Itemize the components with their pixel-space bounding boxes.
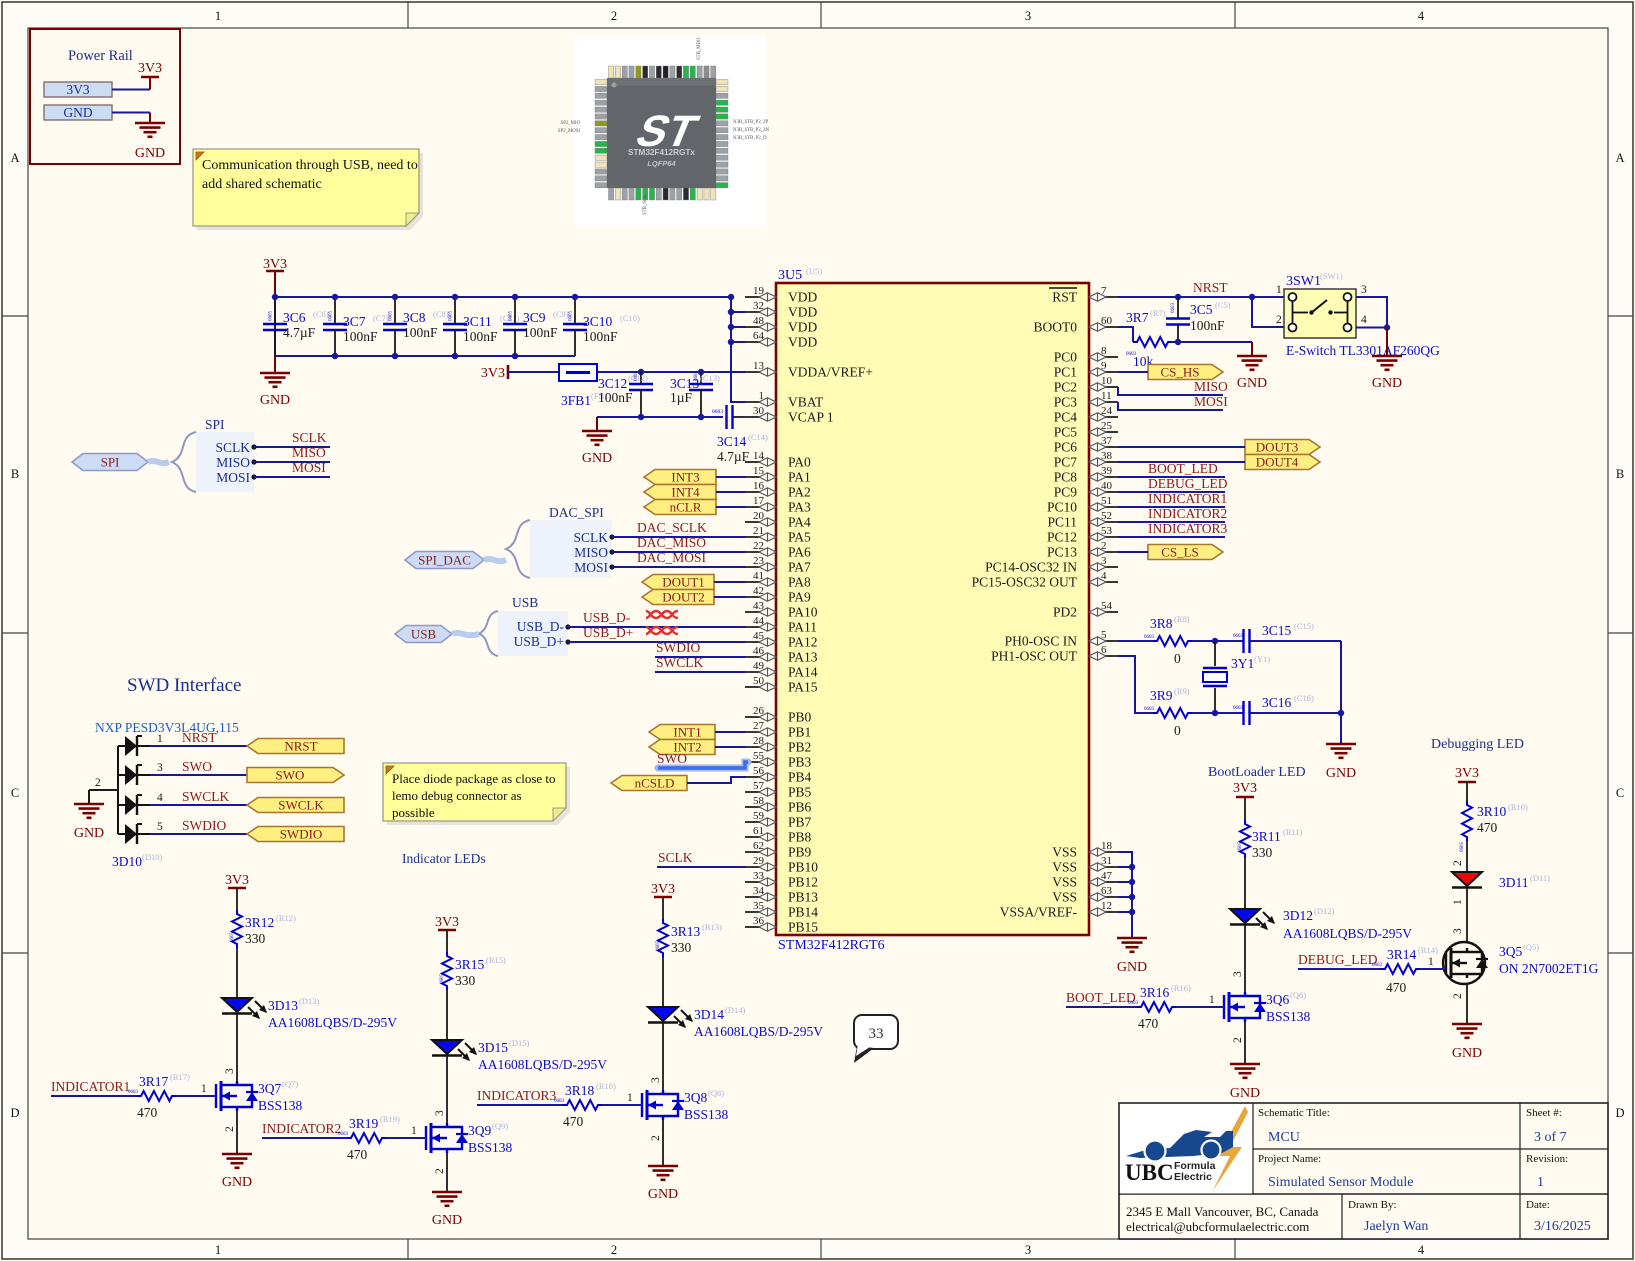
MCU pin 35 PB14 [745, 900, 818, 920]
svg-text:GND: GND [1230, 1086, 1260, 1101]
svg-text:28: 28 [753, 735, 765, 747]
svg-text:INDICATOR2: INDICATOR2 [262, 1121, 341, 1136]
svg-text:PA12: PA12 [788, 635, 818, 650]
svg-text:PC11: PC11 [1047, 515, 1077, 530]
svg-text:Power Rail: Power Rail [68, 48, 133, 64]
svg-text:MOSI: MOSI [292, 460, 326, 475]
ground symbol (D10) [74, 804, 104, 841]
ground symbol (Q6) [1230, 1064, 1260, 1101]
svg-text:Simulated Sensor Module: Simulated Sensor Module [1268, 1175, 1413, 1190]
svg-text:B: B [1616, 467, 1624, 481]
svg-text:GND: GND [1452, 1046, 1482, 1061]
wire USB_D+ to PA12 [565, 639, 745, 644]
wire INT1 to PB1 [715, 731, 745, 733]
svg-text:3R14: 3R14 [1387, 947, 1417, 962]
ground symbol (power rail) [135, 123, 165, 161]
svg-text:34: 34 [753, 885, 765, 897]
svg-text:3R13: 3R13 [671, 924, 701, 939]
MCU pin 20 PA4 [745, 510, 811, 530]
MCU pin 16 PA2 [745, 480, 811, 500]
MCU pin 25 PC5 [1054, 420, 1118, 440]
capacitor C16 [1233, 693, 1314, 725]
svg-text:DOUT2: DOUT2 [662, 590, 705, 605]
svg-text:PB15: PB15 [788, 920, 818, 935]
svg-text:PB7: PB7 [788, 815, 812, 830]
svg-text:0605: 0605 [1460, 842, 1465, 853]
capacitor C5 [1166, 297, 1231, 342]
wire D10 pin 4 SWCLK [150, 789, 247, 805]
svg-text:VDDA/VREF+: VDDA/VREF+ [788, 365, 873, 380]
svg-text:CS_HS: CS_HS [1160, 365, 1199, 380]
svg-text:56: 56 [753, 765, 765, 777]
svg-text:Jaelyn Wan: Jaelyn Wan [1364, 1219, 1428, 1234]
svg-text:44: 44 [753, 615, 765, 627]
svg-text:(C9): (C9) [553, 309, 569, 319]
svg-text:STM32F412RGTx: STM32F412RGTx [628, 148, 695, 157]
svg-text:(C5): (C5) [1215, 300, 1231, 310]
port INT2 [649, 740, 715, 755]
wire INT2 to PB2 [715, 746, 745, 748]
svg-text:4: 4 [1418, 9, 1425, 23]
svg-text:3V3: 3V3 [138, 61, 162, 76]
svg-text:35: 35 [753, 900, 765, 912]
port SWCLK [247, 798, 344, 813]
svg-text:4: 4 [157, 792, 163, 804]
wire INDICATOR3 to R18 [477, 1104, 563, 1106]
svg-text:(Q9): (Q9) [492, 1121, 508, 1131]
svg-text:PB9: PB9 [788, 845, 812, 860]
wire D12 to Q6 drain [1244, 925, 1246, 992]
svg-text:BootLoader LED: BootLoader LED [1208, 765, 1306, 780]
MCU pin 12 VSSA/VREF- [1000, 900, 1118, 920]
ground symbol (NRST RC) [1237, 342, 1267, 391]
junction NRST C5 [1175, 294, 1181, 300]
svg-text:(Y1): (Y1) [1254, 654, 1270, 664]
svg-text:(C7): (C7) [373, 313, 389, 323]
MCU pin 54 PD2 [1053, 600, 1118, 620]
wire C15 to gnd rail [1250, 640, 1341, 642]
wire DAC_MOSI [609, 564, 745, 569]
wire DEBUG_LED (PC9) [1118, 491, 1225, 493]
ground symbol (Q7) [222, 1154, 252, 1190]
svg-text:(SW1): (SW1) [1320, 271, 1343, 281]
svg-text:0603: 0603 [1126, 352, 1137, 357]
MCU pin 64 VDD [745, 330, 817, 350]
svg-text:GND: GND [582, 451, 612, 466]
svg-text:PA0: PA0 [788, 455, 811, 470]
svg-text:MISO: MISO [216, 455, 250, 470]
svg-text:GND: GND [74, 826, 104, 841]
port DOUT2 [642, 590, 714, 605]
wire GND entry to ground [112, 113, 150, 124]
svg-text:3Q8: 3Q8 [684, 1090, 707, 1105]
junction [452, 294, 458, 300]
wire filter ground bus [597, 416, 723, 418]
svg-text:MISO: MISO [1194, 379, 1228, 394]
MCU pin 4 PC15-OSC32 OUT [972, 570, 1118, 590]
svg-text:PA5: PA5 [788, 530, 811, 545]
MCU pin 34 PB13 [745, 885, 818, 905]
svg-text:100nF: 100nF [1190, 318, 1225, 333]
svg-text:12: 12 [1101, 900, 1112, 912]
svg-text:21: 21 [753, 525, 764, 537]
svg-text:62: 62 [753, 840, 764, 852]
svg-text:DAC_MISO: DAC_MISO [637, 535, 706, 550]
svg-text:64: 64 [753, 330, 765, 342]
svg-text:(D10): (D10) [142, 852, 162, 862]
svg-text:AA1608LQBS/D-295V: AA1608LQBS/D-295V [1283, 926, 1412, 941]
svg-text:100nF: 100nF [343, 329, 378, 344]
svg-text:DOUT3: DOUT3 [1256, 440, 1299, 455]
svg-text:PC4: PC4 [1054, 410, 1078, 425]
wire nCSLD to PB4 [687, 777, 745, 783]
svg-text:PC5: PC5 [1054, 425, 1078, 440]
svg-text:3V3: 3V3 [66, 82, 89, 97]
svg-text:Drawn By:: Drawn By: [1348, 1199, 1397, 1211]
wire R9 to C16 [1192, 710, 1243, 716]
svg-text:330: 330 [455, 973, 476, 988]
svg-text:PA11: PA11 [788, 620, 817, 635]
wire D10 pin 1 NRST [150, 730, 247, 746]
svg-text:(R11): (R11) [1283, 827, 1303, 837]
svg-text:100nF: 100nF [463, 329, 498, 344]
svg-text:3D10: 3D10 [112, 854, 142, 869]
svg-text:63: 63 [1101, 885, 1113, 897]
svg-text:PC14-OSC32 IN: PC14-OSC32 IN [985, 560, 1077, 575]
svg-text:(R9): (R9) [1174, 686, 1190, 696]
power symbol 3V3 (bootloader) [1233, 781, 1257, 820]
svg-text:Place diode package as close t: Place diode package as close to [392, 771, 556, 786]
svg-text:0603: 0603 [1233, 634, 1244, 639]
svg-text:5: 5 [1101, 629, 1107, 641]
svg-text:3V3: 3V3 [1455, 766, 1479, 781]
svg-text:1µF: 1µF [670, 390, 693, 405]
svg-text:MCU: MCU [1268, 1130, 1300, 1145]
junction C6 top [272, 294, 278, 300]
svg-text:DEBUG_LED: DEBUG_LED [1148, 476, 1228, 491]
svg-text:3V3: 3V3 [1233, 781, 1257, 796]
svg-text:PC2: PC2 [1054, 380, 1077, 395]
svg-text:PB2: PB2 [788, 740, 811, 755]
wire SWO to PB3 (highlighted) [658, 762, 748, 768]
svg-text:1: 1 [201, 1083, 207, 1095]
ground symbol (decoupling) [260, 356, 290, 408]
svg-text:37: 37 [1101, 435, 1113, 447]
svg-text:PA4: PA4 [788, 515, 811, 530]
STM32F412RGTx chip picture [558, 36, 770, 226]
wire INDICATOR2 to R19 [262, 1137, 347, 1139]
svg-text:3: 3 [1025, 9, 1031, 23]
junction C12 bottom [638, 414, 644, 420]
MCU pin 28 PB2 [745, 735, 811, 755]
LED D12 blue [1230, 906, 1412, 941]
MCU pin 31 VSS [1052, 855, 1118, 875]
svg-text:0605: 0605 [329, 311, 334, 322]
wire CS_HS to PC1 [1118, 371, 1148, 373]
svg-text:1: 1 [759, 390, 765, 402]
svg-text:SWCLK: SWCLK [656, 655, 704, 670]
wire D15 to Q9 [446, 1056, 448, 1123]
svg-text:3R11: 3R11 [1252, 829, 1281, 844]
MCU pin 23 PA7 [745, 555, 811, 575]
svg-text:USB_D+: USB_D+ [514, 634, 564, 649]
svg-text:PA10: PA10 [788, 605, 818, 620]
svg-text:INDICATOR2: INDICATOR2 [1148, 506, 1227, 521]
resistor R9 [1144, 686, 1192, 738]
svg-text:C: C [1616, 786, 1624, 800]
wire INDICATOR1 (PC10) [1118, 506, 1225, 508]
resistor R8 [1144, 614, 1192, 666]
svg-text:42: 42 [753, 585, 764, 597]
MCU pin 51 PC10 [1047, 495, 1118, 515]
transistor Q8 BSS138 [642, 1088, 729, 1122]
junction NRST SW1 [1249, 294, 1255, 300]
MCU pin 59 PB7 [745, 810, 812, 830]
svg-text:PB14: PB14 [788, 905, 818, 920]
svg-text:0603: 0603 [128, 1090, 139, 1095]
svg-text:49: 49 [753, 660, 765, 672]
svg-text:D: D [1615, 1106, 1624, 1120]
svg-text:BSS138: BSS138 [1266, 1009, 1311, 1024]
svg-text:D: D [10, 1106, 19, 1120]
svg-text:(C16): (C16) [1294, 693, 1314, 703]
wire CS_LS to PC13 [1118, 551, 1148, 553]
svg-text:PC1: PC1 [1054, 365, 1077, 380]
junction [392, 294, 398, 300]
svg-text:(C14): (C14) [748, 432, 768, 442]
svg-text:DOUT1: DOUT1 [662, 575, 705, 590]
svg-text:0605: 0605 [656, 941, 661, 952]
svg-text:lemo debug connector as: lemo debug connector as [392, 788, 522, 803]
svg-text:PA14: PA14 [788, 665, 818, 680]
svg-text:SPI: SPI [205, 417, 225, 432]
power symbol 3V3 (ind2) [435, 915, 459, 952]
svg-text:3/16/2025: 3/16/2025 [1534, 1219, 1591, 1234]
svg-text:1: 1 [1276, 284, 1282, 296]
svg-text:13: 13 [753, 360, 765, 372]
MCU pin 53 PC12 [1047, 525, 1118, 545]
MCU pin 49 PA14 [745, 660, 818, 680]
svg-text:3: 3 [434, 1110, 446, 1116]
resistor R17 [128, 1072, 190, 1120]
svg-text:(C8): (C8) [433, 309, 449, 319]
wire Q7 source to gnd [236, 1111, 238, 1154]
svg-text:3C9: 3C9 [523, 310, 546, 325]
wire PH0 to R8 [1118, 640, 1153, 642]
svg-text:6: 6 [1101, 644, 1107, 656]
svg-text:0603: 0603 [1128, 1001, 1139, 1006]
port DOUT4 [1245, 455, 1320, 470]
svg-text:N3B_STB_P2_D: N3B_STB_P2_D [733, 136, 767, 141]
note: place diode package close [383, 763, 570, 825]
svg-text:(D14): (D14) [725, 1005, 745, 1015]
svg-text:INDICATOR3: INDICATOR3 [477, 1088, 557, 1103]
resistor R19 [338, 1114, 400, 1162]
svg-text:100nF: 100nF [583, 329, 618, 344]
svg-text:PC6: PC6 [1054, 440, 1078, 455]
svg-text:PB0: PB0 [788, 710, 812, 725]
wire R15 to D15 [446, 990, 448, 1040]
capacitor C10 [563, 297, 640, 356]
MCU pin 3 PC14-OSC32 IN [985, 555, 1118, 575]
svg-text:MOSI: MOSI [574, 560, 608, 575]
svg-text:3D15: 3D15 [478, 1040, 508, 1055]
port INT1 [649, 725, 715, 740]
wire NRST to SW1 pin2 [1252, 297, 1284, 327]
svg-text:A: A [1615, 151, 1624, 165]
crystal Y1 [1203, 641, 1270, 713]
svg-text:0603: 0603 [1171, 303, 1176, 314]
power symbol 3V3 (ind1) [225, 873, 249, 910]
wire D10 pin 3 SWO [150, 759, 247, 775]
svg-text:2: 2 [611, 1243, 617, 1257]
svg-text:INT1: INT1 [673, 725, 701, 740]
svg-text:(R15): (R15) [486, 955, 506, 965]
svg-text:DAC_SPI: DAC_SPI [549, 505, 604, 520]
svg-text:0603: 0603 [1372, 963, 1383, 968]
wire D13 to Q7 [236, 1014, 238, 1081]
svg-text:0605: 0605 [569, 311, 574, 322]
svg-text:MOSI: MOSI [1194, 394, 1228, 409]
svg-text:PB12: PB12 [788, 875, 818, 890]
wire VSS bus [1118, 852, 1135, 937]
harness SPI [172, 417, 254, 492]
svg-text:VBAT: VBAT [788, 395, 824, 410]
callout 33 [854, 1015, 898, 1063]
svg-text:14: 14 [753, 450, 765, 462]
junction VDD [728, 324, 734, 330]
svg-text:PC7: PC7 [1054, 455, 1078, 470]
wire MOSI [251, 474, 330, 479]
svg-text:(R8): (R8) [1174, 614, 1190, 624]
svg-text:GND: GND [1372, 376, 1402, 391]
svg-text:3Y1: 3Y1 [1231, 656, 1254, 671]
svg-text:2: 2 [1232, 1037, 1244, 1043]
svg-text:(C13): (C13) [700, 373, 720, 383]
junction [572, 294, 578, 300]
svg-text:20: 20 [753, 510, 765, 522]
power symbol 3V3 (debug) [1455, 766, 1479, 801]
svg-text:100nF: 100nF [598, 390, 633, 405]
svg-text:GND: GND [222, 1175, 252, 1190]
svg-text:0605: 0605 [389, 311, 394, 322]
svg-text:(R7): (R7) [1150, 308, 1166, 318]
svg-text:VDD: VDD [788, 335, 817, 350]
svg-text:17: 17 [753, 495, 765, 507]
svg-text:3C11: 3C11 [463, 314, 492, 329]
svg-text:3R9: 3R9 [1150, 688, 1173, 703]
svg-text:USB_D-: USB_D- [583, 610, 631, 625]
svg-text:3C5: 3C5 [1190, 302, 1213, 317]
svg-text:DEBUG_LED: DEBUG_LED [1298, 952, 1378, 967]
svg-text:3D13: 3D13 [268, 998, 298, 1013]
wire R18 to Q8 gate [602, 1104, 642, 1106]
svg-text:AA1608LQBS/D-295V: AA1608LQBS/D-295V [268, 1015, 397, 1030]
MCU pin 38 PC7 [1054, 450, 1118, 470]
harness DAC_SPI [506, 505, 612, 578]
svg-text:0603: 0603 [338, 1132, 349, 1137]
svg-text:0603: 0603 [694, 371, 699, 382]
svg-text:SWO: SWO [182, 759, 212, 774]
svg-text:3R15: 3R15 [455, 957, 485, 972]
harness connector SPI_DAC port [405, 552, 506, 569]
svg-text:(R19): (R19) [380, 1114, 400, 1124]
svg-text:USB: USB [512, 595, 538, 610]
svg-text:3: 3 [1232, 971, 1244, 977]
svg-text:PC8: PC8 [1054, 470, 1078, 485]
MCU pin 13 VDDA/VREF+ [745, 360, 873, 380]
svg-text:SWCLK: SWCLK [182, 789, 230, 804]
svg-text:18: 18 [1101, 840, 1113, 852]
svg-text:3V3: 3V3 [481, 366, 505, 381]
svg-text:50: 50 [753, 675, 765, 687]
ferrite bead FB1 [559, 364, 611, 408]
svg-text:51: 51 [1101, 495, 1112, 507]
svg-text:PA8: PA8 [788, 575, 811, 590]
svg-text:INT3: INT3 [671, 470, 699, 485]
svg-text:DAC_MOSI: DAC_MOSI [637, 550, 707, 565]
svg-text:GND: GND [260, 393, 290, 408]
wire R13 to D14 [662, 957, 664, 1007]
wire USB_D- to PA11 [565, 624, 745, 629]
svg-text:GND: GND [63, 105, 92, 120]
power symbol 3V3 (VDDA filter) [481, 365, 508, 381]
svg-text:PB8: PB8 [788, 830, 812, 845]
svg-text:VSS: VSS [1052, 875, 1077, 890]
svg-text:NRST: NRST [182, 730, 217, 745]
svg-text:57: 57 [753, 780, 765, 792]
svg-text:4.7µF: 4.7µF [283, 325, 316, 340]
harness connector USB port [395, 626, 479, 643]
junction VDD [728, 294, 734, 300]
svg-text:MISO: MISO [292, 445, 326, 460]
svg-text:INT4: INT4 [671, 485, 700, 500]
svg-text:SWDIO: SWDIO [280, 827, 323, 842]
svg-text:B: B [11, 467, 19, 481]
svg-text:AA1608LQBS/D-295V: AA1608LQBS/D-295V [694, 1024, 823, 1039]
junction C13 top [698, 369, 704, 375]
svg-text:1: 1 [215, 9, 221, 23]
svg-text:VSS: VSS [1052, 860, 1077, 875]
MCU pin 41 PA8 [745, 570, 811, 590]
MCU pin 42 PA9 [745, 585, 811, 605]
svg-text:PC9: PC9 [1054, 485, 1078, 500]
MCU pin 39 PC8 [1054, 465, 1118, 485]
svg-text:0603: 0603 [712, 409, 723, 415]
svg-text:PA3: PA3 [788, 500, 811, 515]
svg-text:NRST: NRST [1193, 280, 1228, 295]
svg-text:VSS: VSS [1052, 845, 1077, 860]
port nCSLD [611, 776, 687, 791]
svg-text:100nF: 100nF [403, 325, 438, 340]
svg-text:39: 39 [1101, 465, 1113, 477]
svg-text:3C8: 3C8 [403, 310, 426, 325]
capacitor C13 [670, 371, 720, 418]
wire SCLK [251, 444, 330, 449]
svg-text:SCLK: SCLK [658, 850, 693, 865]
svg-text:11: 11 [1101, 390, 1112, 402]
svg-text:(Q7): (Q7) [282, 1079, 298, 1089]
resistor R18 [554, 1081, 616, 1129]
svg-text:PD2: PD2 [1053, 605, 1077, 620]
svg-text:SWDIO: SWDIO [656, 640, 700, 655]
svg-text:PC12: PC12 [1047, 530, 1077, 545]
wire SWCLK to PA14 [655, 671, 745, 673]
svg-text:USB: USB [411, 627, 437, 642]
port INT3 [644, 470, 716, 485]
MCU pin 62 PB9 [745, 840, 812, 860]
MCU pin 21 PA5 [745, 525, 811, 545]
